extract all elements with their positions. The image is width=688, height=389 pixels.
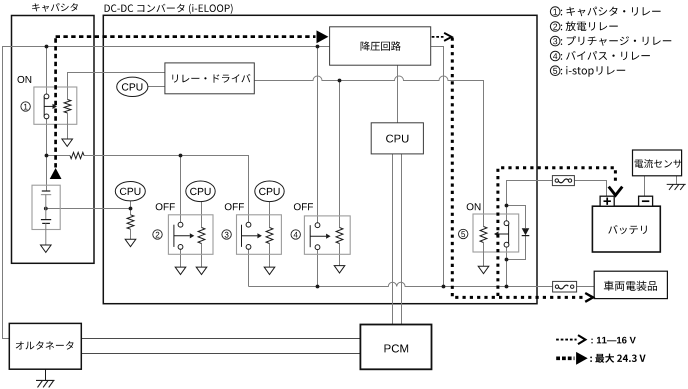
battery terminal - [639,196,653,206]
designator: circled 2 [153,230,162,239]
fuse F2 (vehicle loads feed) [553,281,577,292]
wire: relay driver output bus with hops [254,76,483,227]
diode D (relay5 bypass) [522,228,530,235]
resistor R-sense (capacitor divider) [70,152,84,158]
node: converter output on bus [442,285,446,289]
power flow: converter output arrow (11-16V) thin dashed [432,33,452,41]
node: diode top junction [505,204,509,208]
wire: current sensor ground stem [676,176,678,185]
wire: capacitor string vertical through relay1 [46,47,48,192]
ground: current sensor (chassis) [667,184,686,190]
relay 2 (discharge relay, OFF) [168,215,213,255]
ground: divider resistor [125,239,136,246]
designator: circled 4 [291,230,300,239]
label: OFF (relay2) [156,203,175,210]
wire: relay4 contact bottom to bus [317,250,319,287]
wire: relay5 contact top to fuse and battery + [507,181,607,221]
resistor R-divider below CPU tap [127,215,134,229]
node: relay4 coil tap on driver bus [338,79,342,83]
label: OFF (relay3) [225,203,244,210]
op: CPU (relay driver control) [117,77,148,96]
power flow: capacitor discharge (max 24.3V) thick dashed with up arrow [50,30,329,179]
label: ON (relay1) [18,76,32,83]
legend item 4: バイパス・リレー [550,51,650,61]
wire: relay1 coil to relay driver [68,73,165,100]
wire: relay4 contacts drop from top bus [317,47,319,224]
wire: relay3 contact bottom to common bus [248,249,250,286]
wire: capacitor sense tap with series resistor [47,156,249,223]
op: CPU (relay3 control) [255,181,284,202]
relay driver box (リレー・ドライバ) [165,63,254,94]
node: relay5 bottom on bus [505,285,509,289]
legend item 1: キャパシタ・リレー [550,7,660,17]
ground: relay2 coil [196,267,207,274]
wire: relay5 contact bottom to bus [506,247,508,286]
ground: capacitor [41,245,52,252]
wire: CPU box to PCM (2 lines) [393,154,402,325]
wire: capacitor top bus to step-down input / relay4 [47,46,330,48]
wire: capacitor mid tap to CPU divider [46,201,131,239]
ground: alternator (chassis) [36,380,55,387]
label: OFF (relay4) [294,203,313,210]
wire: fuse2 to vehicle electrical box [577,286,595,288]
node: sense tap on capacitor string [45,154,49,158]
relay 1 (capacitor relay, ON) [34,87,77,124]
ground: relay4 coil [334,266,345,273]
node: CPU divider tap [129,207,133,211]
relay 4 (bypass relay, OFF) [304,216,350,254]
wire: CPU to relay driver [148,86,165,88]
power flow: battery charge path thick dotted [498,168,622,296]
power flow: output rail thick dotted down and to vehicle loads [452,38,593,302]
wire: relay-driver bus to relay4 coil [339,81,341,266]
current sensor box (電流センサ) [633,150,682,176]
relay 3 (precharge relay, OFF) [237,215,282,255]
designator: circled 1 [21,102,30,111]
wire: alternator ground stem [45,369,47,380]
ground: relay2 contacts [175,267,186,274]
node: relay2 tap on sense line [179,154,183,158]
label: ON (relay5) [467,203,481,210]
wire: relay2 contact bottom to ground [180,249,182,267]
legend: max 24.3V thick dotted arrow [556,352,645,365]
legend item 3: プリチャージ・リレー [550,36,671,46]
CPU box (converter) [371,123,423,154]
battery terminal + [600,196,614,206]
wire: common output bus to vehicle fuse (with hops over PCM wires) [249,282,553,286]
step-down circuit box (降圧回路) [330,27,431,65]
wire: capacitor bottom to ground [45,230,47,246]
op: CPU (capacitor voltage sense) [115,182,145,201]
battery box (バッテリ) [592,206,660,252]
wire: capacitor top node to alternator (left feed) [3,47,47,339]
op: CPU (relay2 control) [186,181,215,202]
capacitor unit enclosure (キャパシタ) [12,3,95,263]
capacitor C (double-layer capacitor stack) [32,185,60,229]
ground: relay3 coil [264,267,275,274]
node: diode bottom junction [505,258,509,262]
wire: CPU to relay3 coil [269,202,271,267]
legend item 5: i-stopリレー [550,66,625,77]
designator: circled 3 [222,230,231,239]
alternator box (オルタネータ) [9,323,81,369]
node: capacitor midpoint [44,207,48,211]
wire: step-down bottom to CPU box [397,65,399,123]
wire: current sensor to battery minus [644,176,646,196]
wire: diode branch across relay5 contacts [507,206,526,260]
legend item 2: 放電リレー [550,21,617,31]
PCM box [360,325,431,370]
node: cap top / alternator junction [45,45,49,49]
designator: circled 5 [459,229,468,238]
vehicle electrical loads box (車両電装品) [594,271,667,298]
fuse F1 (battery feed) [552,176,574,186]
relay 5 (i-stop relay, ON, mirrored) [473,214,519,252]
ground: relay1 coil [67,113,69,139]
ground: relay5 coil [483,243,485,267]
wire: relay2 contact drop [180,156,182,223]
DC-DC converter enclosure (i-ELOOP) [103,4,537,304]
wire: step-down output right side down to bus [431,47,444,287]
wire: alternator to PCM (2 lines) [81,339,360,354]
legend: 11-16V dashed arrow [556,335,636,344]
node: relay4 tap on top bus [316,45,320,49]
wire: CPU to relay2 coil [201,202,203,267]
node: relay4 bottom on bus [316,285,320,289]
